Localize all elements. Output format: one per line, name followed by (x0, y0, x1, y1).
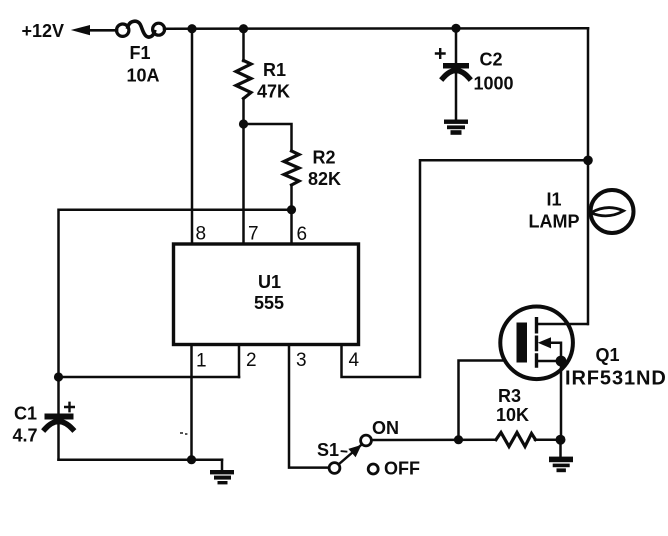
fuse F1 (117, 24, 129, 36)
node rail-C2 junction (451, 24, 460, 33)
svg-text:3: 3 (296, 350, 307, 371)
transistor Q1 MOSFET (500, 307, 573, 380)
node gate-R3 junction (454, 435, 463, 444)
resistor R3 (496, 433, 536, 447)
svg-text:OFF: OFF (384, 459, 420, 479)
svg-text:ON: ON (372, 418, 399, 438)
ground below C2 (444, 120, 468, 124)
svg-text:R2: R2 (313, 148, 336, 168)
node pin1-ground junction (187, 455, 196, 464)
svg-text:10A: 10A (127, 66, 160, 86)
resistor R1 (236, 61, 251, 99)
wire pin8 drop (191, 29, 194, 244)
wire +12V arrow (71, 25, 90, 35)
wire pin4 to drain node (342, 160, 589, 377)
svg-text:6: 6 (297, 224, 308, 245)
wire pin1 drop (190, 345, 193, 460)
node C1 top junction (54, 372, 63, 381)
switch S1 (329, 463, 340, 474)
svg-text:555: 555 (254, 293, 284, 313)
wire C1 bottom to ground run (59, 458, 223, 461)
wire top rail (164, 27, 588, 30)
wire pin6 lead (290, 185, 293, 244)
svg-text:IRF531ND: IRF531ND (565, 368, 667, 390)
svg-text:F1: F1 (130, 43, 151, 63)
node R1-R2 junction (239, 119, 248, 128)
wire drain from lamp line into channel (537, 323, 588, 326)
node source-R3-ground junction (556, 435, 566, 445)
svg-text:Q1: Q1 (596, 345, 620, 365)
svg-text:82K: 82K (308, 169, 341, 189)
lamp I1 (587, 160, 590, 324)
svg-text:U1: U1 (258, 272, 281, 292)
wire ON to gate node (372, 438, 497, 441)
svg-text:S1: S1 (317, 440, 339, 460)
svg-text:R1: R1 (263, 60, 286, 80)
capacitor C1 (57, 377, 60, 414)
svg-text:4.7: 4.7 (13, 426, 38, 446)
node rail-pin8 junction (187, 24, 196, 33)
wire R1 top lead (242, 29, 245, 61)
wire pin7 column (242, 99, 245, 245)
wire rail right corner down to lamp node (587, 28, 590, 160)
svg-text:47K: 47K (257, 82, 290, 102)
svg-text:2: 2 (246, 350, 257, 371)
svg-text:+12V: +12V (22, 21, 65, 41)
wire source drop (560, 361, 563, 440)
svg-text:I1: I1 (547, 190, 562, 210)
svg-text:LAMP: LAMP (529, 212, 580, 232)
svg-text:7: 7 (248, 224, 259, 245)
wire R3 to source node (535, 438, 561, 441)
svg-text:C1: C1 (14, 404, 37, 424)
node lamp-drain junction (583, 156, 593, 166)
wire pin1-pin2 tie (59, 376, 240, 379)
node rail-R1 junction (239, 24, 248, 33)
wire threshold run to left side (59, 210, 292, 377)
ground center (221, 460, 224, 471)
svg-text:10K: 10K (496, 405, 529, 425)
resistor R2 (284, 151, 299, 185)
wire R1-R2 link (244, 124, 292, 151)
svg-text:1: 1 (196, 351, 207, 372)
svg-text:C2: C2 (480, 50, 503, 70)
capacitor C2 (455, 28, 458, 64)
wire pin2 drop (238, 345, 241, 378)
wire pin3 drop (289, 345, 329, 468)
ground below R3 (559, 440, 562, 457)
IC U1 555 (174, 244, 359, 345)
node R2-pin6 junction (287, 205, 296, 214)
svg-text:1000: 1000 (474, 74, 514, 94)
svg-text:4: 4 (349, 350, 360, 371)
svg-text:8: 8 (196, 224, 207, 245)
stray scan mark (180, 432, 183, 434)
wire gate riser (459, 361, 517, 440)
svg-text:R3: R3 (498, 386, 521, 406)
